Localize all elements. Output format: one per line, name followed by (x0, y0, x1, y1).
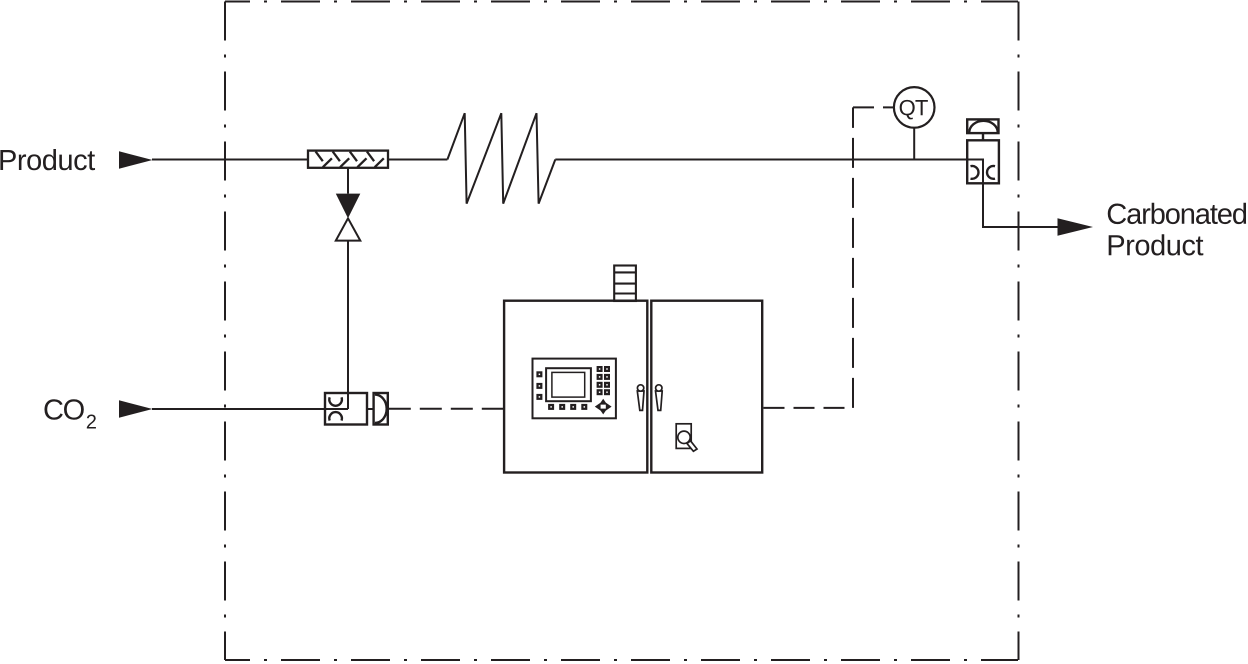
HMI screen inner (552, 372, 585, 397)
QT transmitter label (900, 100, 928, 120)
wire: CO2 valve to actuator (367, 408, 374, 410)
wire: valve internal elbow and outlet (967, 160, 1057, 228)
HMI keys left column (537, 372, 542, 399)
wire: product inlet to static mixer (152, 159, 308, 161)
Carbonated Product label line 1 (1108, 203, 1246, 224)
system boundary bottom edge (dash-dot) (225, 659, 1018, 661)
wire: CO2 inlet line (152, 408, 348, 410)
control cabinet right (651, 301, 762, 473)
HMI navigation pad (595, 399, 612, 415)
coil (zigzag carbonation loop) (447, 113, 555, 203)
Carbonated Product outlet arrow (1058, 218, 1094, 235)
signal wire: CO2 valve to controller (dashed) (389, 408, 504, 410)
wire: coil to carbonation control valve (555, 159, 967, 161)
system boundary top edge (dash-dot) (225, 1, 1018, 3)
check valve upper triangle (filled) (336, 194, 361, 219)
CO2 flow control valve body (325, 393, 367, 425)
wire: check valve to CO2 valve (347, 241, 349, 409)
signal wire: corner to QT (dashed horizontal) (853, 106, 894, 108)
wire: mixer drop to check valve (347, 168, 349, 194)
sight glass (magnifier icon) (676, 424, 697, 452)
wire: QT tap to product line (913, 128, 915, 159)
door handle right (656, 385, 663, 411)
HMI keys bottom row (549, 405, 587, 410)
carbonation control valve body (967, 140, 999, 183)
HMI panel (533, 359, 616, 419)
HMI keys right grid (597, 367, 609, 395)
Carbonated Product label line 2 (1109, 234, 1204, 255)
CO2 inlet arrow (119, 400, 153, 417)
door handle left (637, 385, 644, 411)
CO2 subscript 2 (87, 415, 96, 429)
check valve lower triangle (open) (336, 218, 361, 240)
Product label (0, 149, 95, 170)
static mixer (308, 151, 388, 168)
signal wire: corner riser (dashed vertical) (852, 107, 854, 408)
system boundary right edge (dash-dot) (1018, 2, 1020, 661)
system boundary left edge (dash-dot) (224, 2, 226, 661)
control valve actuator dome (967, 119, 998, 140)
control cabinet left (504, 301, 647, 473)
stack light (614, 266, 636, 302)
Product inlet arrow (119, 151, 153, 168)
signal wire: controller to corner (dashed horizontal) (764, 407, 854, 409)
CO2 label (44, 399, 83, 420)
CO2 valve actuator (374, 393, 388, 425)
QT transmitter circle (894, 87, 935, 128)
wire: mixer to coil (388, 159, 447, 161)
HMI screen outer (546, 368, 591, 401)
